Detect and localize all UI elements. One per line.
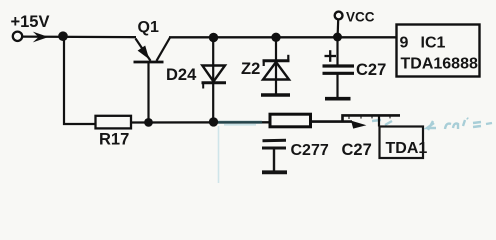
svg-text:IC1: IC1 xyxy=(421,35,446,52)
svg-text:9: 9 xyxy=(400,35,409,52)
svg-text:TDA1: TDA1 xyxy=(386,140,428,157)
svg-text:+15V: +15V xyxy=(11,13,50,31)
svg-text:C277: C277 xyxy=(291,142,329,159)
svg-text:VCC: VCC xyxy=(346,10,375,25)
svg-text:Z2: Z2 xyxy=(241,60,260,78)
svg-text:TDA16888: TDA16888 xyxy=(401,56,478,73)
svg-text:C27: C27 xyxy=(342,141,372,159)
svg-text:Q1: Q1 xyxy=(138,19,159,36)
svg-text:R17: R17 xyxy=(99,131,129,149)
svg-text:D24: D24 xyxy=(166,66,197,84)
svg-text:C27: C27 xyxy=(356,61,386,79)
